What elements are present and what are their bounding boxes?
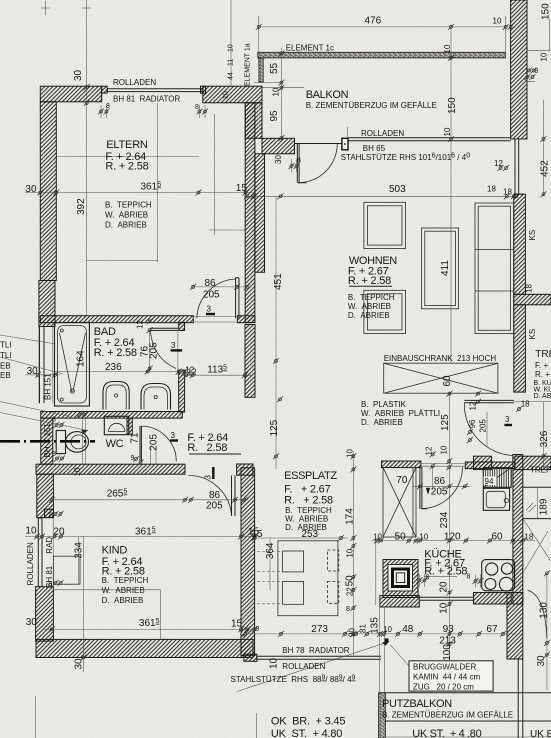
wall: balcony-WOHNEN corner top right — [511, 0, 527, 139]
svg-text:UK B: UK B — [530, 729, 551, 738]
right wall 205 dim line — [486, 412, 488, 446]
svg-text:B. ZEMENTÜBERZUG IM GEFÄLLE: B. ZEMENTÜBERZUG IM GEFÄLLE — [382, 711, 513, 720]
door BAD: side dim lines — [150, 330, 178, 375]
wall: BAD top wall / ELTERN bottom wall — [40, 316, 193, 323]
svg-text:18: 18 — [525, 284, 534, 293]
svg-text:B. TEPPICH: B. TEPPICH — [102, 576, 149, 585]
svg-text:D. ABRIEB: D. ABRIEB — [105, 221, 147, 230]
svg-text:120: 120 — [444, 532, 461, 543]
wall: notch on KIND upper block — [45, 509, 54, 517]
svg-text:9: 9 — [131, 455, 135, 462]
svg-text:96: 96 — [468, 419, 477, 428]
door ELTERN: threshold lines — [193, 317, 237, 323]
right wall 12 markers — [498, 165, 504, 171]
stahlstuetze leader diagonal — [237, 642, 388, 692]
kueche closet X diagonal 1 — [383, 468, 416, 537]
right wall 8 markers top — [526, 68, 532, 74]
svg-text:8: 8 — [52, 417, 56, 424]
svg-text:93: 93 — [443, 624, 455, 635]
essplatz chair bottom-left — [283, 581, 304, 604]
svg-text:30: 30 — [74, 658, 85, 670]
treppe step line 1 — [523, 486, 551, 488]
svg-text:30: 30 — [26, 617, 38, 628]
balcony slab left vertical piece — [259, 58, 263, 82]
kitchen stove outline — [482, 560, 515, 591]
kamin flue inner — [396, 573, 404, 583]
svg-text:KS: KS — [528, 230, 537, 241]
right wall 18 marker — [511, 193, 517, 199]
wc 8 markers bottom — [54, 456, 60, 462]
svg-text:R. 2.58: R. 2.58 — [187, 442, 227, 454]
kitchen sink unit — [483, 488, 509, 510]
top edge vertical line at x507 — [505, 16, 507, 52]
steel column mark at kamin corner — [385, 639, 389, 643]
kind door 3 tick — [212, 467, 214, 479]
wohnen shelf bottom-left outer — [364, 290, 406, 333]
svg-text:BRUGGWALDER: BRUGGWALDER — [413, 663, 476, 672]
svg-text:411: 411 — [440, 260, 451, 276]
svg-text:W. ABRIEB: W. ABRIEB — [348, 302, 391, 311]
wall: KIND bottom wall right step — [244, 654, 257, 661]
kind 334 vertical dim — [78, 537, 80, 585]
svg-text:B. ZEMENTÜBERZUG IM GEFÄLLE: B. ZEMENTÜBERZUG IM GEFÄLLE — [306, 101, 437, 110]
svg-text:10: 10 — [269, 657, 280, 669]
svg-text:UK ST. + 4.80: UK ST. + 4.80 — [271, 728, 342, 738]
wall: right stub at y295 — [514, 294, 551, 305]
kueche 12 markers top — [467, 429, 473, 435]
door ELTERN: swing arc — [197, 279, 236, 318]
kind 30 bottom marker — [81, 655, 87, 661]
bathtub inner rounded — [58, 326, 87, 404]
svg-text:10: 10 — [373, 533, 382, 542]
door BALKON: leaf — [297, 144, 306, 183]
svg-text:WC: WC — [106, 438, 124, 450]
svg-text:125: 125 — [440, 414, 451, 431]
kueche 8 pair left — [417, 577, 423, 583]
window: right wall window double line — [514, 139, 524, 194]
svg-text:150: 150 — [447, 97, 458, 114]
svg-text:10: 10 — [25, 525, 37, 536]
wohnen underline — [349, 285, 392, 287]
kueche closet tall box — [383, 468, 416, 537]
kueche center vertical dim line — [449, 393, 451, 660]
svg-text:EINBAUSCHRANK 213 HOCH: EINBAUSCHRANK 213 HOCH — [384, 354, 497, 363]
svg-text:8: 8 — [426, 575, 430, 582]
WC toilet bowl inner — [71, 435, 86, 449]
svg-text:8: 8 — [256, 626, 260, 633]
kueche dim row line — [372, 540, 535, 542]
svg-text:476: 476 — [365, 15, 382, 26]
WC hand basin bowl semicircle — [109, 423, 125, 431]
svg-text:60: 60 — [442, 375, 453, 387]
kueche underline — [424, 575, 457, 577]
door BALKON: swing arc — [298, 144, 337, 183]
svg-text:BH 81 RADIATOR: BH 81 RADIATOR — [113, 95, 181, 104]
WC toilet bowl outer — [66, 432, 89, 453]
svg-text:205: 205 — [149, 342, 160, 359]
steel column at window start — [342, 138, 348, 150]
eltern 8 marker pair right — [197, 109, 203, 115]
wall: KIND left wall upper block — [37, 474, 54, 517]
svg-text:ROLLADEN: ROLLADEN — [26, 542, 35, 585]
wall: BAD right wall below door — [179, 370, 185, 412]
svg-text:D. ABRIEB: D. ABRIEB — [102, 596, 144, 605]
door TREPPE: swing arc — [464, 403, 513, 456]
svg-text:BH: BH — [43, 446, 52, 457]
svg-text:236: 236 — [105, 362, 122, 373]
kamin flue square thick — [393, 569, 409, 587]
wall: corner piece at corridor bottom — [237, 464, 253, 475]
svg-text:OK BR. + 3.45: OK BR. + 3.45 — [271, 716, 345, 728]
window: ELTERN top window double line — [108, 89, 203, 92]
BAD sink 1 inner line — [106, 385, 126, 410]
wall: KIND bottom exterior wall — [36, 639, 253, 657]
wall: stub right of balcony jamb — [255, 154, 265, 272]
svg-text:364: 364 — [265, 542, 276, 559]
wohnen shelf top-left outer — [364, 202, 406, 248]
window: KUECHE bottom window double line — [419, 597, 473, 600]
kueche 8 pair right — [473, 578, 479, 584]
kueche door triangle — [426, 488, 430, 495]
svg-text:151: 151 — [43, 423, 52, 437]
svg-text:205: 205 — [149, 434, 160, 451]
svg-text:3: 3 — [204, 475, 213, 480]
svg-text:TREPPE: TREPPE — [535, 349, 551, 360]
svg-text:30: 30 — [25, 184, 37, 195]
right edge top lines — [527, 19, 551, 81]
svg-text:30: 30 — [274, 155, 283, 164]
WC hand basin — [104, 416, 129, 434]
svg-text:TREPPE: TREPPE — [530, 466, 551, 475]
kind 9 markers — [53, 580, 59, 586]
wall: jamb right of ELTERN door — [237, 316, 255, 323]
door BAD: leaf — [150, 328, 178, 330]
svg-text:10: 10 — [73, 467, 82, 476]
svg-text:F. + 2.67: F. + 2.67 — [284, 483, 330, 495]
essplatz table outline — [278, 541, 338, 616]
slab edge lines kamin to putzbalkon — [376, 541, 385, 693]
window: WOHNEN balcony window double line — [348, 138, 511, 141]
top tick at x86.7 — [82, 7, 91, 9]
svg-text:10: 10 — [383, 625, 392, 634]
svg-text:273: 273 — [311, 624, 328, 635]
wohnen shelf bottom-left inner — [367, 294, 402, 330]
svg-text:R. +: R. + — [535, 370, 550, 379]
kueche closet X diagonal 2 — [383, 468, 416, 537]
kind door vertical dims — [151, 447, 157, 464]
svg-text:KAMIN 44 / 44 cm: KAMIN 44 / 44 cm — [413, 673, 480, 682]
svg-text:D. ABRIEB: D. ABRIEB — [361, 418, 403, 427]
svg-text:10: 10 — [439, 602, 450, 614]
svg-text:3: 3 — [171, 341, 176, 350]
wall: corridor-WOHNEN vertical wall upper — [245, 103, 255, 323]
dim 503 line — [247, 195, 517, 197]
svg-text:RAD: RAD — [45, 537, 54, 554]
svg-text:451: 451 — [273, 273, 284, 290]
svg-text:22: 22 — [346, 587, 355, 596]
svg-text:174: 174 — [345, 508, 356, 525]
BAD sink 1 — [103, 382, 129, 410]
eltern door dim line — [192, 286, 247, 288]
svg-text:8: 8 — [106, 103, 110, 110]
svg-text:KIND: KIND — [102, 545, 128, 557]
svg-text:150: 150 — [541, 3, 551, 20]
kueche wall 10 markers — [446, 458, 452, 464]
eltern 30 wall dim vertical — [84, 84, 90, 90]
svg-text:12: 12 — [469, 401, 478, 410]
essplatz 174 vertical dim — [352, 451, 354, 656]
kueche closet inner edge — [412, 468, 414, 537]
bruggwalder arrow line — [390, 645, 409, 667]
eltern right dim vertical — [213, 114, 215, 235]
treppe slash marks — [526, 503, 536, 512]
kind 8 markers upper — [53, 511, 59, 517]
svg-text:18: 18 — [524, 533, 533, 542]
bottom left vertical line fragment — [35, 696, 37, 738]
label 94 radiator — [484, 477, 497, 486]
neighbour stair door arc — [528, 590, 547, 638]
svg-text:B. TEPPICH: B. TEPPICH — [348, 293, 395, 302]
door KUECHE: leaf — [420, 467, 427, 509]
putzbalkon lower divider line — [385, 720, 551, 722]
balcony right vertical dim line — [450, 27, 452, 363]
wohnen table outer — [422, 228, 459, 309]
label BRUGGWALDER box — [409, 661, 493, 691]
wall: right wall middle section — [514, 194, 526, 294]
svg-text:8: 8 — [52, 451, 56, 458]
top tick at x45 — [41, 1, 50, 15]
svg-text:ELEMENT 1a: ELEMENT 1a — [245, 43, 252, 86]
wohnen 125 vertical dim — [275, 361, 277, 469]
balcony slab edge band — [258, 52, 506, 58]
kitchen sink basin — [486, 491, 505, 507]
svg-text:12: 12 — [136, 320, 145, 329]
bathtub drain V lines — [60, 333, 86, 392]
kind 20 dim line — [25, 536, 256, 538]
svg-text:55: 55 — [269, 62, 280, 74]
svg-text:392: 392 — [76, 198, 87, 215]
kitchen radiator diagonal — [483, 468, 511, 488]
svg-text:81: 81 — [359, 624, 368, 633]
svg-text:30: 30 — [27, 366, 39, 377]
treppe diagonal run line — [523, 519, 551, 562]
svg-text:EB: EB — [0, 371, 11, 380]
dim 476 line — [259, 26, 506, 28]
svg-text:95: 95 — [269, 110, 280, 122]
svg-text:ELEMENT 1c: ELEMENT 1c — [286, 44, 334, 53]
svg-text:STAHLSTÜTZE RHS 889/ 889/ 49: STAHLSTÜTZE RHS 889/ 889/ 49 — [231, 675, 356, 685]
svg-text:3: 3 — [207, 305, 212, 314]
stove burner top-right — [501, 563, 512, 574]
svg-text:10: 10 — [223, 91, 230, 99]
leader line EB 2 with arrow — [0, 413, 88, 431]
bathtub outer — [55, 323, 90, 407]
svg-text:BH 81: BH 81 — [45, 565, 54, 588]
svg-text:10: 10 — [540, 52, 549, 61]
balcony door 8 markers — [289, 163, 295, 169]
svg-text:ESSPLATZ: ESSPLATZ — [284, 470, 337, 482]
wohnen table inner — [425, 231, 456, 305]
door KIND: leaf — [232, 476, 236, 517]
stove burner bottom-left — [485, 579, 496, 590]
svg-text:ROLLADEN: ROLLADEN — [282, 662, 325, 671]
treppe vertical line — [537, 487, 539, 518]
eltern interior vertical dim line — [86, 103, 88, 316]
kitchen radiator block — [483, 468, 511, 488]
einbauschrank X diagonal 1 — [384, 363, 498, 393]
svg-text:452: 452 — [540, 160, 551, 177]
svg-text:164: 164 — [76, 350, 87, 367]
essplatz chair top-right — [327, 550, 338, 571]
window: KIND left window double line — [38, 518, 42, 587]
svg-text:10: 10 — [228, 44, 235, 52]
kind bed line — [53, 589, 160, 591]
svg-text:KS: KS — [528, 329, 537, 340]
svg-text:50: 50 — [395, 532, 407, 543]
door WC: leaf — [140, 426, 141, 461]
essplatz 364 vertical line — [269, 538, 271, 590]
svg-text:234: 234 — [439, 511, 450, 528]
essplatz chair top-left — [283, 551, 304, 572]
corridor wc vertical thin lines — [83, 418, 86, 464]
svg-text:12: 12 — [425, 446, 434, 455]
svg-text:11: 11 — [228, 59, 235, 66]
top edge vertical line at x86.7 — [86, 0, 88, 103]
svg-text:ELTERN: ELTERN — [106, 139, 148, 151]
svg-text:334: 334 — [74, 542, 85, 559]
stahlstuetze arrow — [382, 641, 390, 646]
svg-text:100: 100 — [442, 644, 453, 661]
kamin outer hatched block — [383, 560, 418, 598]
wall: ELTERN top exterior wall left part — [40, 86, 101, 102]
wall: balcony left jamb — [262, 138, 295, 154]
BAD sink 2 drain — [154, 395, 157, 398]
wc bump markers — [76, 412, 82, 418]
svg-text:R. + 2.58: R. + 2.58 — [424, 566, 467, 578]
top edge vertical line at x256 — [258, 16, 260, 54]
right 326 vertical dim — [543, 402, 545, 470]
BAD sink 2 inner line — [144, 387, 168, 410]
window: ESSPLATZ bottom window double line — [256, 656, 381, 659]
svg-text:205: 205 — [479, 419, 488, 433]
wall: left exterior wall of ELTERN — [40, 102, 56, 281]
wall: WC left exterior wall — [41, 418, 53, 464]
wall: kitchen bottom wall — [474, 593, 512, 605]
kind 265.5 dim line — [52, 499, 248, 501]
svg-text:8: 8 — [346, 606, 350, 613]
svg-text:70: 70 — [396, 475, 408, 486]
wall: corridor-WOHNEN vertical wall lower — [245, 325, 255, 398]
svg-text:W. ABRIEB: W. ABRIEB — [105, 211, 148, 220]
putzbalkon bottom edge line — [385, 736, 551, 738]
eltern door 3 tick — [206, 313, 215, 315]
svg-text:10: 10 — [346, 548, 355, 557]
door KIND: swing arc — [189, 475, 232, 516]
stove burner top-left — [486, 563, 498, 575]
svg-text:R. + 2.58: R. + 2.58 — [348, 275, 391, 287]
door TREPPE: leaf — [464, 400, 514, 402]
svg-text:8: 8 — [297, 158, 301, 165]
dash-dot section line at WC — [0, 440, 95, 443]
essplatz 253 dim line — [251, 537, 348, 539]
svg-text:BALKON: BALKON — [306, 89, 349, 101]
svg-text:3: 3 — [171, 431, 176, 440]
wall: KIND left wall lower block — [36, 587, 54, 641]
eltern mid horizontal line — [56, 156, 199, 158]
svg-text:18: 18 — [521, 400, 530, 409]
balcony left vertical dim line — [280, 48, 282, 138]
svg-text:10: 10 — [443, 127, 452, 136]
wohnen sofa divider 1 — [475, 249, 514, 251]
treppe side line — [514, 401, 551, 403]
window: BAD left window double line — [40, 327, 45, 404]
door KUECHE: threshold lines — [419, 464, 465, 467]
bad door dim marks 12 — [147, 318, 153, 324]
svg-text:TLI: TLI — [0, 351, 12, 360]
leader line TLI 1 — [0, 335, 56, 344]
svg-text:10: 10 — [440, 445, 449, 454]
wall: kamin collar below — [380, 596, 419, 608]
svg-text:125: 125 — [269, 419, 280, 436]
putzbalkon top edge line — [379, 692, 551, 694]
bad 30 dim line left — [25, 374, 60, 376]
wall: notch on right block — [201, 86, 206, 93]
svg-text:B. PLASTIK: B. PLASTIK — [361, 400, 407, 409]
svg-text:12: 12 — [494, 159, 503, 168]
svg-text:R. + 2.58: R. + 2.58 — [94, 347, 137, 359]
svg-text:10: 10 — [443, 44, 452, 53]
eltern 8 marker pair left — [98, 109, 104, 115]
svg-text:UK ST. + 4 .80: UK ST. + 4 .80 — [412, 728, 481, 738]
svg-text:BH 78 RADIATOR: BH 78 RADIATOR — [282, 646, 350, 655]
wall: closet top stub at ESSPLATZ — [382, 461, 421, 468]
wall: BAD bottom wall — [41, 412, 183, 419]
kueche door dim line — [413, 485, 470, 487]
eltern 361.5 dim line — [25, 192, 255, 194]
svg-text:86: 86 — [205, 278, 217, 289]
svg-text:48: 48 — [402, 624, 414, 635]
svg-text:50: 50 — [345, 575, 356, 587]
svg-text:10: 10 — [346, 449, 355, 458]
svg-text:EB: EB — [0, 362, 11, 371]
wall: kitchen top wall — [465, 462, 514, 469]
wall: left wall above BAD — [39, 281, 55, 327]
wohnen sofa right outer — [475, 203, 514, 334]
svg-text:BH 65: BH 65 — [363, 144, 386, 153]
svg-text:205: 205 — [203, 290, 220, 301]
wall: vertical piece below top right block — [245, 103, 262, 139]
KIND radiator rect — [53, 556, 80, 584]
treppe diagonal cross line — [523, 531, 548, 573]
door WC: swing arc — [141, 426, 177, 461]
bathtub overflow circles — [60, 329, 63, 332]
essplatz dashed chair lines — [257, 552, 283, 604]
treppe door 12 markers — [475, 391, 481, 397]
stove burner bottom-right — [499, 577, 513, 591]
leader line TLI 2 — [0, 357, 63, 374]
svg-text:W. ABRIEB: W. ABRIEB — [102, 586, 145, 595]
wall: kitchen right wall — [513, 455, 523, 605]
door BALKON: threshold line — [295, 143, 342, 145]
wohnen sofa right inner — [478, 206, 510, 330]
kamin inner white — [388, 565, 413, 592]
kind 361.5 dim line — [44, 628, 256, 630]
svg-text:60: 60 — [492, 532, 504, 543]
bad door 3 tick — [171, 349, 183, 351]
bad vertical dim at window — [38, 327, 40, 404]
wc door 9 markers — [133, 456, 139, 462]
svg-text:90: 90 — [348, 628, 357, 637]
